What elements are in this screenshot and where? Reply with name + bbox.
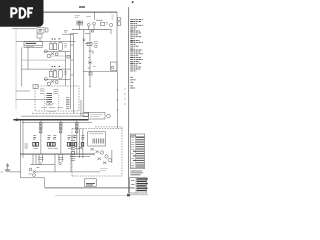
- wire: main gas header: [72, 29, 112, 31]
- off-sheet connector boxes at right border: [112, 15, 121, 25]
- page background: [0, 0, 149, 198]
- sheet left border vertical: [15, 28, 17, 111]
- wire: left drop lines: [20, 120, 22, 178]
- pump train P-101B: [53, 119, 73, 154]
- instrument stack on dashed boundary: [71, 136, 75, 161]
- wire: riser branch: [62, 33, 73, 35]
- compressor K-101 internals: [40, 89, 45, 94]
- text block below table: [131, 171, 144, 175]
- sheet bottom-left border vertical: [44, 178, 46, 188]
- exchanger train E-102 cluster: [22, 66, 70, 85]
- connector box on boundary corner: [33, 85, 38, 89]
- cooler skid dashed boundary: [72, 128, 122, 130]
- instrument box FIC-101: [87, 42, 92, 45]
- wire: vertical line bundle to lower unit: [70, 34, 72, 109]
- compressor auxiliary stack: [66, 98, 69, 109]
- sheet right border vertical: [116, 12, 118, 71]
- compressor package dashed boundary: [35, 86, 79, 111]
- revision triangle top right: [132, 1, 134, 3]
- wire: drop with valve V-102: [84, 30, 89, 113]
- pump/valve cluster P-102: [100, 151, 103, 154]
- PDF badge: [0, 0, 44, 27]
- company logo mark above top border: [79, 6, 85, 8]
- sheet top border: [6, 11, 117, 13]
- vent stack symbol bottom-left: [1, 163, 21, 172]
- wire: feed line to E-101: [16, 40, 76, 42]
- valve group with instrument bubbles: [29, 168, 40, 177]
- pump train P-101A: [33, 119, 53, 154]
- drain pot vessel D-101: [111, 62, 118, 71]
- valve station V-101 (hatched): [77, 21, 84, 26]
- equipment label box (two-row): [24, 42, 42, 48]
- notes column divider: [128, 7, 130, 193]
- valve cluster at left drops: [25, 144, 29, 148]
- air cooler box inside dashed unit: [88, 132, 106, 146]
- wire: condensate header horizontal: [83, 71, 117, 73]
- pump train P-101C: [74, 119, 85, 154]
- wire: drop to flare with arrow: [89, 30, 91, 86]
- drawing number box bottom-center: [85, 179, 97, 187]
- exchanger train E-101 cluster: [16, 39, 76, 86]
- line label box on discharge header: [81, 100, 111, 119]
- wire: bundle verticals into dashed unit: [79, 129, 81, 159]
- sheet bottom border: [45, 187, 135, 189]
- wire: left supply verticals: [21, 47, 23, 86]
- instrument bubbles PI/TI on header: [87, 23, 90, 26]
- wire: pump suction bus line: [20, 153, 95, 155]
- instrument boxes under badge: [12, 28, 36, 30]
- wire: drops below pump trains: [38, 154, 64, 165]
